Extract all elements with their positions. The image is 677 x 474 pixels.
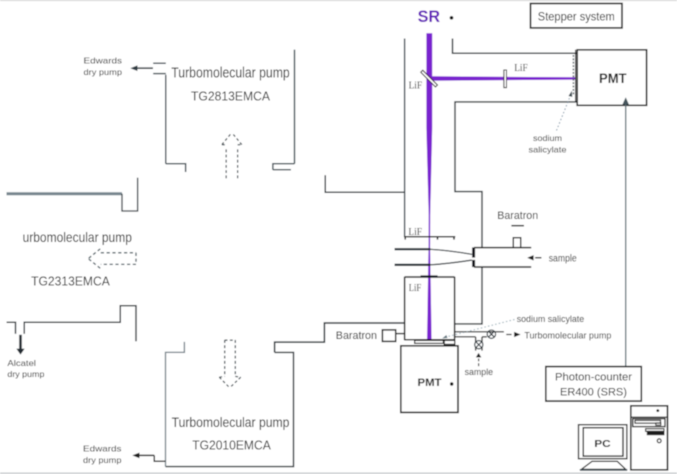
- svg-text:ER400 (SRS): ER400 (SRS): [560, 386, 627, 398]
- svg-text:TG2010EMCA: TG2010EMCA: [192, 439, 271, 453]
- sodium salicylate label: [529, 133, 567, 154]
- svg-text:PMT: PMT: [418, 377, 443, 389]
- Edwards dry pump label (bottom): [83, 444, 122, 466]
- PC monitor: [579, 425, 627, 459]
- sample inlet arrow (up): [476, 353, 481, 367]
- svg-text:Turbomolecular pump: Turbomolecular pump: [524, 330, 611, 341]
- PMT 1 box: [577, 50, 646, 106]
- Edwards dry pump label (top): [84, 56, 123, 78]
- Baratron port (top): [511, 226, 524, 248]
- exit flange of detection tube: [404, 340, 455, 345]
- svg-text:TG2813EMCA: TG2813EMCA: [191, 89, 271, 103]
- pointer: sodium salicylate arrow: [557, 91, 573, 131]
- sodium salicylate coating on PMT window: [573, 50, 575, 102]
- svg-text:salicylate: salicylate: [529, 144, 567, 154]
- wire: chamber left wall (lower) to TG2010 pump: [275, 323, 405, 352]
- LiF window (horizontal branch): [504, 70, 507, 88]
- svg-text:Alcatel: Alcatel: [7, 358, 36, 368]
- valve V1: [487, 330, 495, 338]
- dashed intake arrow (up) of TG2813 pump: [222, 133, 242, 179]
- sample inlet pipe: [474, 248, 531, 267]
- arrow to Edwards dry pump (top): [130, 65, 153, 71]
- svg-text:dry pump: dry pump: [84, 67, 123, 77]
- svg-text:LiF: LiF: [409, 81, 423, 92]
- turbomolecular pump TG2010EMCA outline: [166, 342, 294, 467]
- svg-text:LiF: LiF: [514, 63, 528, 74]
- svg-text:Edwards: Edwards: [84, 56, 123, 66]
- svg-text:Edwards: Edwards: [83, 444, 122, 454]
- svg-text:PC: PC: [594, 438, 611, 450]
- svg-text:Baratron: Baratron: [497, 210, 538, 222]
- svg-text:urbomolecular pump: urbomolecular pump: [23, 230, 133, 245]
- svg-text:sample: sample: [549, 253, 577, 264]
- arrow to Alcatel dry pump: [16, 335, 24, 355]
- LiF beam splitter: [421, 70, 438, 87]
- turbomolecular pump TG2813EMCA labels: [171, 65, 289, 103]
- node: SR dot: [450, 16, 454, 20]
- wire: PMT pipe bottom wall: [455, 102, 577, 248]
- wire: beamline tube left wall: [404, 39, 406, 237]
- svg-text:LiF: LiF: [408, 227, 422, 238]
- arrow to Edwards dry pump (bottom): [132, 453, 165, 462]
- svg-text:dry pump: dry pump: [7, 369, 44, 379]
- dashed intake arrow (down) of TG2010 pump: [219, 340, 240, 388]
- svg-text:PMT: PMT: [599, 71, 627, 86]
- svg-text:Baratron: Baratron: [336, 330, 377, 342]
- dashed left arrow (TG2313 pump): [88, 249, 136, 268]
- stepper system box: [531, 4, 623, 28]
- sample arrow (right): [527, 255, 541, 260]
- turbomolecular pump arrow label: [506, 330, 611, 341]
- svg-text:sample: sample: [465, 367, 494, 377]
- PC keyboard: [580, 461, 627, 470]
- svg-text:SR: SR: [418, 8, 441, 26]
- skimmer aperture bars: [472, 247, 475, 267]
- wire: roughing line U-bend: [122, 178, 138, 211]
- sodium salicylate label (bottom) with pointer: [442, 314, 584, 338]
- wire: PMT1 signal line to photon counter: [622, 97, 629, 366]
- LiF window (detection tube): [421, 275, 438, 277]
- Alcatel dry pump label: [7, 358, 44, 379]
- svg-text:Turbomolecular pump: Turbomolecular pump: [172, 415, 290, 431]
- svg-text:dry pump: dry pump: [83, 455, 122, 465]
- svg-text:TG2313EMCA: TG2313EMCA: [31, 274, 110, 288]
- turbomolecular pump TG2813EMCA outline: [153, 50, 294, 172]
- turbomolecular pump TG2010EMCA labels: [172, 415, 290, 452]
- svg-text:LiF: LiF: [409, 283, 422, 294]
- Baratron gauge (bottom): [382, 330, 404, 342]
- svg-text:Stepper system: Stepper system: [538, 10, 615, 24]
- pipe to turbomolecular pump (valve line): [455, 332, 504, 351]
- svg-text:sodium salicylate: sodium salicylate: [517, 314, 585, 324]
- detection tube (lower): [405, 277, 455, 340]
- LiF exit window flange of upper tube: [404, 237, 455, 240]
- wire: Alcatel roughing pipe: [7, 306, 136, 342]
- wire: chamber right wall (lower): [455, 267, 482, 324]
- wire: chamber left wall (upper): [325, 175, 404, 192]
- svg-text:sodium: sodium: [533, 133, 562, 143]
- PMT 2 box: [401, 346, 458, 413]
- SR beam (vertical): [426, 33, 432, 339]
- SR beam (horizontal branch to PMT): [431, 76, 576, 80]
- photon counter box: [546, 367, 642, 402]
- svg-text:Turbomolecular pump: Turbomolecular pump: [171, 65, 289, 81]
- computer tower: [631, 406, 668, 470]
- roughing line (thick) to TG2313 pump: [7, 192, 123, 195]
- nozzle plates (sample beam): [395, 249, 472, 265]
- svg-text:Photon-counter: Photon-counter: [555, 372, 632, 384]
- wire: beamline tube right wall (top): [453, 39, 578, 54]
- valve V2 (sample inlet): [475, 341, 483, 349]
